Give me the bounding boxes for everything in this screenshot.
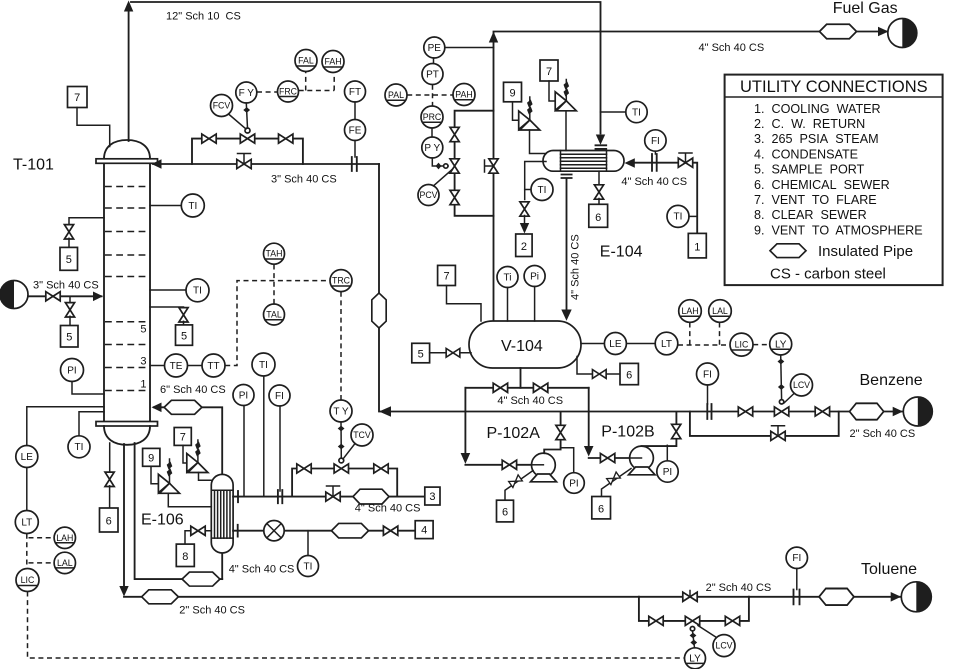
column T-101 top flange (96, 159, 158, 164)
signal TY to TCV (340, 422, 342, 458)
svg-text:LT: LT (661, 339, 672, 350)
LY bubble (toluene) (685, 648, 706, 669)
svg-text:7: 7 (546, 66, 552, 78)
box 5 sample port upper (60, 247, 78, 270)
svg-text:2" Sch 40 CS: 2" Sch 40 CS (706, 582, 772, 594)
insulated pipe symbol (fuel gas) (819, 24, 856, 39)
wire: overhead top header to E-104 (131, 2, 601, 134)
FAL bubble (295, 50, 317, 72)
svg-text:4" Sch 40 CS: 4" Sch 40 CS (229, 564, 295, 576)
PY bubble (422, 137, 443, 158)
svg-text:P-102B: P-102B (601, 424, 654, 441)
leader LCV to valve (toluene) (698, 626, 717, 638)
svg-text:5: 5 (140, 324, 146, 336)
box 9 vent to atmosphere (E-104) (504, 82, 522, 102)
wire: condensate line from E-106 (233, 530, 415, 532)
CW return drain valve (520, 202, 529, 216)
svg-text:3. 265 PSIA STEAM: 3. 265 PSIA STEAM (754, 132, 879, 146)
svg-text:PAH: PAH (455, 90, 472, 100)
svg-text:6: 6 (598, 503, 604, 515)
box 7 vent to flare (E-106) (174, 428, 191, 446)
E-106 tube sheets (211, 490, 233, 538)
svg-text:8. CLEAR SEWER: 8. CLEAR SEWER (754, 208, 867, 222)
PT bubble (422, 64, 443, 85)
wire box7 to V-104 top (447, 286, 482, 322)
svg-text:T Y: T Y (333, 406, 349, 417)
FY bubble (236, 82, 257, 103)
E-104 top nozzle flange bars (596, 145, 607, 149)
gate valve (condensate) (383, 526, 397, 535)
LIC bubble (V-104) (730, 333, 753, 356)
svg-text:PAL: PAL (388, 90, 404, 100)
relief valve PSV2 (E-106 to flare) (187, 454, 198, 473)
signal PY to PCV valve (432, 158, 448, 166)
insulated pipe symbol on 2" line (142, 590, 179, 604)
svg-text:FI: FI (275, 391, 284, 402)
LCV bubble (benzene) (791, 374, 813, 396)
relief valve PSV3 (E-104 to atm) (519, 111, 530, 130)
suction valve A2 (502, 460, 516, 469)
pump A base (531, 474, 557, 482)
PI bubble left of column (61, 359, 84, 382)
svg-text:LIC: LIC (21, 575, 35, 585)
svg-text:PT: PT (426, 69, 439, 80)
globe valve w/ stem (benzene bypass) (771, 431, 785, 440)
svg-text:F Y: F Y (239, 88, 255, 99)
feed sample drop (69, 296, 71, 303)
svg-text:FAH: FAH (324, 57, 341, 67)
svg-text:9. VENT TO ATMOSPHERE: 9. VENT TO ATMOSPHERE (754, 223, 923, 237)
wire: suction drop B (588, 388, 590, 446)
wire box9 to PSV3 (513, 102, 519, 120)
wire: bottoms product leg (123, 444, 125, 586)
fuel gas riser from V-104 (493, 33, 495, 321)
gate valve toluene bypass right (725, 616, 739, 625)
svg-text:Benzene: Benzene (860, 372, 923, 389)
svg-text:FRC: FRC (279, 87, 298, 97)
svg-text:12" Sch 10 CS: 12" Sch 10 CS (166, 11, 241, 23)
svg-text:9: 9 (148, 453, 154, 465)
svg-text:2: 2 (521, 241, 527, 253)
wire LE-LT (626, 343, 655, 345)
svg-text:Toluene: Toluene (861, 561, 917, 578)
wire: toluene main line through valve (639, 596, 749, 598)
wire: flare riser 12" from dome top (128, 10, 130, 141)
svg-text:TI: TI (538, 185, 547, 196)
svg-text:4" Sch 40 CS: 4" Sch 40 CS (355, 503, 421, 515)
sample valve (V-104) (446, 348, 460, 357)
TAH bubble (264, 243, 285, 264)
FE bubble (345, 120, 366, 141)
svg-text:5: 5 (418, 348, 424, 360)
insulated pipe symbol (benzene) (850, 403, 884, 419)
wire FT-FE (354, 102, 356, 120)
wire: V-104 bottom outlet (520, 368, 522, 388)
svg-text:6: 6 (106, 516, 112, 528)
arrow up fuel gas (489, 32, 498, 43)
benzene bypass loop (690, 412, 839, 436)
wire: pump A discharge (544, 412, 560, 453)
svg-text:PI: PI (239, 390, 248, 401)
dashed branches to LAH/LAL (29, 538, 55, 563)
box 4 condensate (415, 521, 433, 539)
control valve LCV (benzene) (774, 407, 788, 416)
E-104 tubes (561, 154, 607, 168)
globe valve w/ stem on reflux line (237, 159, 251, 168)
svg-text:4" Sch 40 CS: 4" Sch 40 CS (699, 42, 765, 54)
gate valve toluene bypass left (649, 616, 663, 625)
insulated pipe symbol on 6" return (164, 400, 202, 414)
control valve FCV (240, 134, 254, 143)
svg-text:LCV: LCV (715, 641, 732, 651)
svg-text:TRC: TRC (332, 276, 351, 286)
toluene stream symbol (901, 582, 931, 612)
svg-text:T-101: T-101 (13, 157, 54, 174)
wire: suction drop A (464, 388, 466, 453)
globe valve w/ stem (CW) (678, 158, 692, 167)
wire: V-104 drain to box 6 (577, 357, 620, 375)
wire box9 to PSV1 (151, 466, 158, 484)
svg-text:6: 6 (626, 370, 632, 382)
PE bubble (424, 37, 445, 58)
wire PSV2 inlet to shell (199, 473, 212, 481)
gate valve benzene right (815, 407, 829, 416)
insulated pipe symbol on steam line (353, 489, 389, 504)
arrow into V-104 top (561, 310, 571, 321)
svg-text:TI: TI (632, 107, 641, 118)
arrow feed into column (93, 292, 103, 302)
condenser E-104 shell (543, 151, 624, 172)
arrow up flare (124, 1, 133, 12)
wire: E-104 drain to box 6 (598, 171, 600, 185)
dashed signal FRC to FAL/FAH (299, 72, 335, 91)
dashed LT to LIC (26, 534, 28, 569)
utility connections legend box (725, 75, 943, 286)
wire: reboiler vapor return into column (154, 407, 222, 474)
dashed signal TAH-TAL (273, 265, 275, 304)
svg-text:6" Sch 40 CS: 6" Sch 40 CS (160, 384, 226, 396)
column bottom drain to box 6 (109, 443, 111, 473)
dashed LIC-LY (753, 344, 769, 346)
LAH bubble (V-104) (679, 300, 702, 323)
PCV bubble (418, 185, 439, 206)
fuel gas stream symbol (888, 19, 917, 48)
mid TI bubble on column (150, 289, 186, 291)
arrow 6" return into column (152, 403, 162, 413)
drain valve (191, 526, 205, 535)
signal LY to LCV (780, 355, 783, 399)
svg-text:TI: TI (674, 212, 683, 223)
svg-text:4" Sch 40 CS: 4" Sch 40 CS (570, 234, 582, 300)
svg-text:FAL: FAL (298, 56, 314, 66)
toluene main valve (683, 592, 697, 601)
svg-text:FCV: FCV (213, 101, 231, 111)
feed valve (46, 292, 60, 301)
box 5 sample port feed (61, 326, 79, 348)
svg-text:5: 5 (181, 331, 187, 343)
svg-text:3" Sch 40 CS: 3" Sch 40 CS (271, 174, 337, 186)
wire LE-LT (26, 468, 28, 511)
svg-text:E-106: E-106 (141, 512, 184, 529)
TAL bubble (264, 304, 285, 325)
box 6 chemical sewer (V-104) (620, 363, 638, 384)
LIC bubble (16, 569, 39, 592)
LCV bubble (toluene) (713, 635, 735, 657)
TRC bubble (330, 270, 352, 292)
FI bubble (toluene) (786, 547, 807, 568)
orifice (toluene) (794, 590, 800, 605)
feed stream symbol (left) (0, 281, 28, 309)
pump A drain to box 6 (505, 471, 533, 501)
wire: feed line (28, 295, 102, 297)
svg-text:5. SAMPLE PORT: 5. SAMPLE PORT (754, 163, 865, 177)
svg-text:LT: LT (21, 517, 32, 528)
arrow into reflux riser (379, 406, 391, 416)
reboiler E-106 shell (211, 474, 233, 553)
relief valve PSV1 (E-106 to atm) (158, 474, 169, 493)
dashed PAL-PAH (407, 94, 453, 96)
svg-text:2" Sch 40 CS: 2" Sch 40 CS (179, 605, 245, 617)
insulated pipe symbol on reboiler feed (182, 572, 220, 586)
svg-text:TI: TI (304, 561, 313, 572)
suction valve B (533, 383, 547, 392)
orifice on steam line (278, 490, 282, 503)
dashed signal TT to TRC (225, 281, 330, 366)
Pi bubble (V-104) (524, 266, 545, 287)
drain valve (592, 370, 606, 379)
wire: E-106 bottom stub (221, 552, 223, 579)
E-106 steam nozzle flange (237, 491, 239, 502)
orifice (CW) (652, 154, 657, 171)
wire: reflux riser down to discharge header (378, 164, 380, 412)
wire: PCV manifold loop (455, 111, 494, 216)
gate valve bypass left (202, 134, 216, 143)
svg-text:Fuel Gas: Fuel Gas (833, 0, 898, 17)
svg-text:7. VENT TO FLARE: 7. VENT TO FLARE (754, 193, 877, 207)
LE bubble (16, 446, 38, 468)
dashed signal FY-FRC (257, 91, 277, 93)
svg-text:7: 7 (443, 271, 449, 283)
svg-text:LIC: LIC (735, 340, 749, 350)
svg-text:1: 1 (694, 241, 700, 253)
svg-text:TI: TI (193, 286, 202, 297)
TI bubble (condensate) (298, 556, 319, 577)
FI bubble (CW) (645, 130, 666, 151)
wire: PE branch (445, 47, 494, 49)
box 6 chemical sewer (column) (100, 508, 119, 532)
TT bubble (188, 365, 202, 367)
LAL bubble (54, 552, 75, 573)
dashed PT to PRC (432, 85, 434, 107)
gate valve benzene left (738, 407, 752, 416)
column T-101 bottom flange (96, 422, 158, 427)
pump P-102B (630, 446, 654, 470)
PSV1 spring (169, 459, 171, 483)
svg-text:1. COOLING WATER: 1. COOLING WATER (754, 102, 881, 116)
svg-text:9: 9 (509, 87, 515, 99)
gate valve manifold bottom (450, 190, 459, 204)
svg-text:3: 3 (140, 356, 146, 368)
gate valve manifold right (374, 464, 388, 473)
discharge valve A (556, 425, 565, 439)
svg-text:FT: FT (349, 87, 361, 98)
svg-text:5: 5 (66, 332, 72, 344)
right sample nozzle (150, 307, 184, 309)
relief valve PSV4 (E-104 to flare) (555, 92, 566, 111)
wire box5 to V-104 (430, 352, 471, 354)
TY bubble (330, 400, 352, 422)
wire: steam line into E-106 (233, 496, 425, 498)
steam trap (circle-X) (264, 521, 284, 541)
wire: reflux line 3" into column top (153, 163, 379, 165)
wire: CW inlet to E-104 (632, 163, 697, 234)
wire PI branch B (666, 445, 668, 461)
E-106 condensate nozzle flange (237, 525, 239, 537)
FCV bubble (211, 95, 233, 117)
PSV2 spring (197, 440, 199, 463)
column T-101 shell body (104, 164, 150, 422)
svg-text:LCV: LCV (793, 380, 810, 390)
LT bubble (655, 332, 678, 355)
orifice flanges on reflux line (352, 157, 357, 171)
TE bubble (150, 365, 164, 367)
leader PCV to valve (434, 170, 453, 186)
wire PSV3 inlet (530, 130, 547, 154)
box 9 vent to atmosphere (E-106) (143, 448, 160, 466)
svg-text:PE: PE (428, 43, 442, 54)
box 5 sample port right (176, 325, 193, 345)
svg-text:LAL: LAL (712, 306, 728, 316)
box 8 clear sewer (176, 544, 194, 566)
svg-text:Ti: Ti (504, 272, 512, 283)
svg-text:TT: TT (207, 361, 219, 372)
svg-text:TCV: TCV (353, 430, 371, 440)
wire V-104 to LE (581, 343, 604, 345)
TI bubble bottom left of column (68, 436, 90, 458)
FRC bubble (278, 81, 299, 102)
wire box7 to PSV4 (549, 81, 555, 101)
legend insulated pipe symbol (770, 244, 806, 258)
svg-text:4" Sch 40 CS: 4" Sch 40 CS (621, 176, 687, 188)
box 3 steam supply (425, 487, 440, 505)
insulated pipe symbol (toluene) (819, 589, 854, 606)
PRC bubble (421, 106, 443, 128)
TCV bubble (351, 424, 373, 446)
wire PSV4 inlet to shell top (565, 111, 567, 151)
svg-text:6: 6 (595, 212, 601, 224)
box 5 sample port (V-104) (412, 343, 430, 363)
svg-text:E-104: E-104 (600, 244, 643, 261)
PAL bubble (385, 84, 407, 106)
gate valve manifold top (450, 127, 459, 141)
svg-text:6. CHEMICAL SEWER: 6. CHEMICAL SEWER (754, 178, 890, 192)
LT bubble (15, 511, 38, 534)
TI drop on steam line (263, 376, 265, 497)
svg-text:TE: TE (170, 361, 183, 372)
svg-text:PI: PI (569, 478, 578, 489)
column T-101 top dome (104, 140, 150, 159)
svg-text:FI: FI (651, 136, 660, 147)
PSV4 spring (565, 80, 567, 101)
svg-text:FI: FI (703, 369, 712, 380)
wire: TCV bypass manifold (292, 469, 397, 497)
control valve PCV (450, 159, 459, 173)
box 6 chemical sewer (E-104) (589, 204, 608, 227)
insulated pipe symbol (vertical) on riser (372, 293, 386, 328)
globe valve w/ stem on steam line (326, 492, 340, 501)
wire: CW return from E-104 to box 2 (525, 162, 546, 200)
svg-text:4. CONDENSATE: 4. CONDENSATE (754, 147, 858, 161)
FI drop to orifice (279, 406, 281, 491)
svg-text:PCV: PCV (419, 190, 437, 200)
FT bubble (345, 81, 366, 102)
globe valve w/ stem on fuel gas riser (489, 159, 498, 173)
svg-text:TI: TI (188, 201, 197, 212)
PAH bubble (453, 84, 475, 106)
pump B drain to box 6 (602, 469, 632, 497)
svg-text:CS - carbon steel: CS - carbon steel (770, 266, 886, 283)
TI bubble (steam) (252, 353, 275, 376)
svg-text:V-104: V-104 (501, 338, 543, 355)
leader TCV to valve (343, 444, 355, 460)
box 1 cooling water (688, 233, 706, 258)
wire: reboiler feed leg (135, 443, 223, 579)
LAL bubble (V-104) (709, 300, 732, 323)
orifice (benzene) (707, 404, 711, 419)
svg-text:TI: TI (259, 360, 268, 371)
svg-text:7: 7 (180, 432, 186, 444)
box 7 vent to flare (column top) (68, 87, 88, 108)
pump B base (629, 467, 656, 475)
arrow fuel gas offpage (878, 27, 889, 37)
box 7 vent to flare (E-104) (540, 60, 558, 81)
wire FE to orifice (354, 141, 356, 158)
svg-text:3: 3 (429, 491, 435, 503)
svg-text:LAL: LAL (57, 558, 73, 568)
svg-text:Pi: Pi (530, 271, 539, 282)
wire: E-104 condensate to V-104 (566, 179, 568, 312)
control valve LCV (toluene) (685, 616, 699, 625)
wire PE-PT (433, 58, 435, 64)
svg-text:LE: LE (21, 452, 34, 463)
svg-text:1: 1 (140, 379, 146, 391)
arrow down onto 2" line (119, 586, 128, 597)
PI bubble (pump B) (657, 461, 678, 482)
svg-text:P-102A: P-102A (487, 425, 541, 442)
wire box7 to PSV2 (183, 445, 187, 463)
svg-text:TI: TI (75, 442, 84, 453)
LAH bubble (54, 527, 75, 548)
svg-text:4" Sch 40 CS: 4" Sch 40 CS (497, 395, 563, 407)
control valve TCV (334, 464, 348, 473)
arrow reflux into column (152, 159, 162, 169)
arrow CW into shell (625, 158, 635, 168)
wire: 2" bottoms line across page (124, 596, 639, 598)
svg-text:Insulated Pipe: Insulated Pipe (818, 243, 913, 260)
sample valve (vertical) (64, 225, 73, 239)
dashed signal TRC to TY (340, 292, 342, 400)
Ti bubble (V-104) (497, 267, 518, 288)
PI drop on steam line (243, 406, 245, 497)
leader FCV to valve (229, 114, 247, 129)
box 2 CW return (516, 234, 532, 257)
discharge valve B (672, 424, 681, 438)
svg-text:LAH: LAH (56, 533, 73, 543)
LE bubble (604, 333, 626, 355)
signal FY to FCV valve (246, 103, 247, 128)
box 6 (pump B) (592, 497, 611, 519)
arrow toluene offpage (891, 592, 901, 602)
